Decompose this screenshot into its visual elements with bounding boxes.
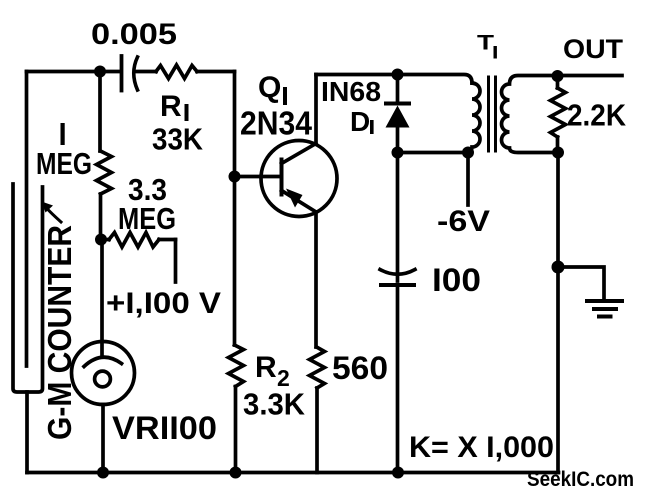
label R1 (160, 90, 189, 123)
node dot R2 bottom (230, 467, 242, 479)
resistor R2 3.3K (229, 345, 244, 387)
svg-text:D: D (350, 106, 370, 137)
node dot ground tap (552, 261, 565, 274)
svg-text:OUT: OUT (563, 34, 624, 64)
node dot diode top (392, 69, 404, 81)
wire base (235, 175, 281, 179)
node A (junction 1MEG/3.3MEG/VR) (95, 234, 107, 246)
wire base branch vertical (233, 72, 237, 346)
svg-text:K= X I,000: K= X I,000 (409, 431, 554, 464)
wire bottom rail (27, 471, 559, 475)
svg-text:R: R (160, 90, 182, 123)
wire collector up (314, 75, 318, 144)
diode D1 IN68 (386, 75, 410, 282)
svg-text:I00: I00 (432, 262, 481, 298)
resistor 560 (310, 347, 325, 388)
node dot OUT (552, 70, 564, 82)
svg-text:+I,I00 V: +I,I00 V (106, 287, 221, 320)
wire R2 bottom (234, 387, 238, 473)
node dot -6V tap (462, 147, 474, 159)
transistor Q1 (261, 141, 337, 217)
svg-text:0.005: 0.005 (91, 18, 177, 51)
wire emitter down (314, 212, 318, 347)
label D1 (350, 106, 374, 137)
svg-text:MEG: MEG (118, 201, 176, 236)
svg-text:33K: 33K (152, 122, 204, 157)
node dot top-left (94, 66, 106, 78)
svg-text:2N34: 2N34 (240, 105, 313, 142)
wire primary bottom (398, 151, 467, 155)
wire to ground (558, 267, 604, 301)
label R2 (255, 351, 290, 391)
svg-text:2.2K: 2.2K (567, 98, 627, 133)
node dot VR bottom (97, 467, 109, 479)
G-M counter tube (13, 184, 43, 392)
node dot secondary bottom (552, 147, 564, 159)
VR1100 tube V1 (72, 342, 135, 405)
arrow pointing to tube (42, 202, 62, 223)
svg-text:G-M COUNTER: G-M COUNTER (41, 225, 78, 440)
wire 1MEG top (98, 72, 102, 152)
wire 1MEG bottom (99, 194, 103, 239)
ground (587, 301, 622, 317)
resistor R1 33K (156, 65, 197, 79)
wire -6V stub (466, 153, 470, 206)
transformer T1 secondary winding (502, 76, 623, 153)
svg-text:560: 560 (332, 350, 388, 386)
svg-text:Q: Q (258, 71, 281, 104)
wire VR bottom (101, 405, 105, 473)
resistor 3.3 MEG (101, 233, 176, 248)
label T1 (477, 32, 497, 59)
svg-text:T: T (477, 32, 494, 55)
label Q1 (258, 71, 287, 105)
svg-text:-6V: -6V (437, 205, 490, 238)
transformer T1 core (489, 77, 496, 151)
svg-text:VRII00: VRII00 (112, 410, 217, 446)
wire VR top (100, 240, 104, 358)
svg-text:3.3K: 3.3K (243, 387, 306, 422)
svg-text:SeekIC.com: SeekIC.com (527, 468, 634, 491)
wire R1 to corner (197, 70, 235, 74)
resistor 1 MEG (97, 151, 112, 194)
wire right vertical (556, 153, 560, 473)
wire collector rail to transformer (316, 75, 472, 84)
wire tube bottom stub (25, 392, 29, 473)
node dot cap bottom (392, 467, 404, 479)
capacitor 100 (380, 270, 415, 473)
svg-text:R: R (255, 351, 277, 384)
resistor 2.2K (551, 76, 566, 153)
transformer T1 primary winding (464, 83, 480, 153)
capacitor 0.005 (100, 56, 156, 91)
wire 560 bottom (315, 388, 319, 473)
node B (base junction) (229, 171, 241, 183)
node dot diode bottom (392, 147, 404, 159)
wire +1100V stub (174, 240, 178, 283)
wire top-left horizontal (27, 70, 101, 74)
svg-text:IN68: IN68 (321, 76, 381, 107)
wire left vertical (G-M tube center electrode) (25, 72, 29, 367)
label 1 (of 1 MEG) (61, 123, 65, 145)
svg-text:MEG: MEG (36, 146, 92, 181)
